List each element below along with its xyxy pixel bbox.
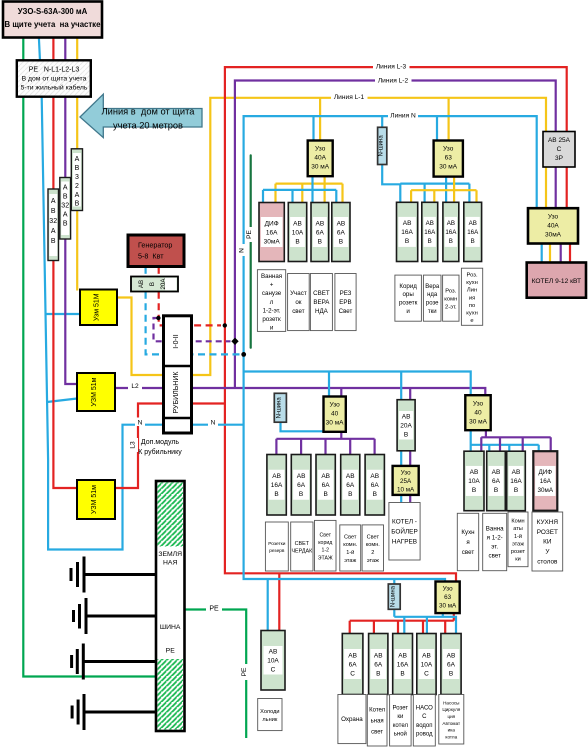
svg-text:6А: 6А: [337, 229, 346, 236]
svg-text:свет: свет: [371, 730, 383, 736]
svg-text:комн.: комн.: [366, 542, 381, 548]
svg-text:5-8 Квт: 5-8 Квт: [138, 252, 164, 261]
svg-text:В: В: [471, 238, 475, 245]
svg-text:6А: 6А: [316, 229, 325, 236]
svg-text:Узо: Узо: [315, 146, 326, 153]
breaker AB 6A V group3 d: [365, 455, 384, 516]
svg-text:УЗМ 51м: УЗМ 51м: [91, 485, 98, 514]
svg-text:АВ: АВ: [374, 652, 383, 659]
load label kitchen light: [457, 513, 478, 570]
svg-text:16А: 16А: [266, 229, 278, 236]
svg-text:16А: 16А: [424, 229, 436, 236]
svg-text:16А: 16А: [271, 482, 283, 489]
earth bus bar with hatch: [156, 481, 185, 731]
svg-text:водоп: водоп: [416, 723, 432, 729]
svg-text:1-й: 1-й: [514, 533, 522, 540]
breaker AB 6A V group3 a: [291, 455, 311, 516]
svg-text:нда: нда: [427, 292, 438, 298]
wire N from N-bus2 to UZO40-mid: [281, 422, 324, 431]
breaker AB-V-20A generator: [131, 277, 178, 292]
svg-text:20А: 20А: [160, 278, 167, 290]
svg-text:Линия L-3: Линия L-3: [376, 64, 407, 71]
svg-text:и: и: [270, 325, 274, 332]
svg-text:этаж: этаж: [512, 541, 524, 547]
svg-text:В: В: [449, 670, 453, 677]
svg-text:котла: котла: [445, 735, 457, 740]
svg-text:В: В: [323, 491, 327, 498]
svg-text:ДИФ: ДИФ: [539, 469, 553, 476]
wire N UZO40-3 to boiler: [541, 244, 543, 263]
svg-text:В щите учета на участке: В щите учета на участке: [5, 20, 102, 29]
svg-text:корид: корид: [318, 540, 332, 546]
svg-text:3: 3: [75, 174, 79, 181]
svg-text:АВ: АВ: [447, 220, 455, 227]
breaker AB 16A V group2 d: [464, 202, 482, 261]
net label N rotated on N riser: [239, 244, 248, 256]
svg-text:Свет: Свет: [367, 534, 380, 540]
svg-text:А: А: [75, 156, 80, 163]
wire N drop to UZO40-mid riser branch: [328, 372, 330, 397]
breaker AB 16A V group4: [507, 451, 526, 511]
wire L2 UZO40-3 to boiler: [560, 244, 562, 263]
svg-text:30мА: 30мА: [264, 238, 281, 245]
RCD UZO 63 30mA top group 2: [434, 141, 463, 177]
svg-text:я 1-2-: я 1-2-: [487, 535, 503, 542]
net label L3 rotated: [129, 438, 138, 452]
wire N stub to N-bus1: [381, 116, 383, 127]
svg-text:ьная: ьная: [371, 719, 384, 725]
svg-text:Узо: Узо: [473, 401, 484, 408]
svg-text:В: В: [51, 208, 56, 215]
RCBO DIF 16A 30mA group4: [533, 451, 557, 511]
svg-text:тки: тки: [428, 309, 437, 315]
svg-text:учета 20 метров: учета 20 метров: [113, 121, 183, 131]
svg-text:1-й: 1-й: [346, 549, 354, 556]
svg-text:санузе: санузе: [262, 290, 282, 297]
svg-text:этаж: этаж: [367, 558, 379, 564]
breaker AB 16A V group2 b: [422, 202, 438, 261]
svg-text:6А: 6А: [297, 482, 306, 489]
net label PE on earth link: [206, 603, 222, 613]
svg-text:6А: 6А: [371, 482, 380, 489]
dashed wire L generator branch to L2 riser node: [154, 318, 231, 341]
wire L2 drop to AB20A: [409, 388, 411, 400]
load label veranda sockets: [423, 275, 441, 321]
svg-text:К рубильнику: К рубильнику: [138, 448, 182, 456]
load label kitchen sockets: [532, 512, 563, 571]
svg-text:Кухн: Кухн: [461, 529, 474, 536]
svg-text:Генератор: Генератор: [138, 241, 172, 250]
net label PE rotated on green middle wire: [246, 227, 256, 242]
wire L2 AB25 to UZO40-3: [555, 167, 557, 208]
svg-text:свет: свет: [462, 549, 475, 556]
load label attic light: [291, 522, 313, 571]
svg-text:А: А: [51, 228, 56, 235]
svg-text:В: В: [63, 194, 68, 201]
wire L1 drop to UZO63 top group: [448, 98, 450, 141]
svg-text:Узо: Узо: [443, 146, 454, 153]
svg-text:16А: 16А: [540, 478, 552, 485]
breaker AB 16A V group3: [267, 455, 286, 516]
svg-text:ДИФ: ДИФ: [265, 220, 279, 227]
RCD UZO 40A 30mA right column: [528, 208, 578, 243]
svg-text:АВ: АВ: [272, 473, 281, 480]
svg-text:л: л: [270, 299, 274, 306]
svg-text:В дом от щита учета: В дом от щита учета: [22, 76, 87, 83]
svg-text:СВЕТ: СВЕТ: [313, 290, 330, 297]
wire L3 UZO40-3 to boiler: [569, 244, 571, 263]
wire L2 from UZM2 through switch to middle purple bus ending at UZO40-2: [114, 388, 485, 395]
svg-text:В: В: [428, 238, 432, 245]
svg-text:я: я: [466, 539, 469, 546]
svg-text:5-ти жильный кабель: 5-ти жильный кабель: [21, 84, 88, 92]
load label boiler heater: [389, 503, 420, 561]
net label Linia N: [388, 110, 418, 120]
RCBO DIF 16A 30mA group1: [259, 203, 284, 262]
generator 5-8 kW: [128, 235, 184, 267]
wire N from switch right to riser: [191, 424, 244, 426]
svg-text:N: N: [138, 420, 143, 427]
svg-text:В: В: [405, 238, 409, 245]
svg-text:6А: 6А: [447, 661, 456, 668]
wire L3 AB25 to UZO40-3: [566, 167, 568, 208]
label add-module for switch: [138, 439, 182, 456]
ground symbol 3: [72, 644, 166, 680]
wire L3 red drop to fridge breaker: [278, 573, 280, 630]
svg-text:16А: 16А: [467, 229, 479, 236]
svg-text:16А: 16А: [445, 229, 457, 236]
svg-text:Свет: Свет: [319, 533, 331, 539]
wire L3 red vertical line L-3 with left drop to bottom bus and right drop: [225, 67, 567, 581]
svg-text:30 мА: 30 мА: [439, 603, 457, 610]
svg-text:В: В: [75, 201, 80, 208]
svg-text:Холоди: Холоди: [260, 709, 279, 715]
breaker AB32A on L2 feeder: [60, 178, 71, 240]
svg-text:30 мА: 30 мА: [469, 419, 488, 426]
svg-text:РЕ: РЕ: [241, 667, 248, 676]
svg-text:АВ: АВ: [337, 220, 346, 227]
load label kitchen line sockets: [461, 268, 482, 325]
svg-text:Насосы: Насосы: [443, 701, 459, 706]
svg-text:котел: котел: [393, 723, 409, 729]
svg-text:А: А: [63, 185, 68, 192]
svg-text:40А: 40А: [314, 155, 326, 162]
svg-text:30мА: 30мА: [545, 232, 562, 239]
load label corridor sockets: [395, 275, 422, 321]
svg-text:В: В: [51, 238, 56, 245]
svg-text:2: 2: [371, 550, 374, 556]
net label PE rotated on bottom green wire: [241, 664, 251, 680]
wire N diagonal into UZM2: [47, 399, 77, 403]
svg-text:В: В: [274, 491, 278, 498]
svg-text:этаж: этаж: [344, 558, 356, 564]
wire L2 AB20A to UZO25: [409, 451, 411, 466]
svg-text:столов: столов: [537, 558, 558, 565]
svg-text:С: С: [271, 667, 276, 674]
svg-text:Линия в дом от щита: Линия в дом от щита: [102, 107, 196, 117]
load label water pump: [413, 695, 435, 747]
wire L3 from UZM3 right to switch: [114, 404, 164, 489]
svg-text:10 мА: 10 мА: [397, 487, 415, 494]
net label Linia L-1: [331, 92, 368, 102]
svg-text:и: и: [406, 308, 410, 315]
svg-text:10А: 10А: [468, 478, 480, 485]
svg-text:КОТЕЛ -: КОТЕЛ -: [392, 519, 417, 526]
svg-text:Узм 51М: Узм 51М: [94, 293, 101, 321]
svg-text:1-2: 1-2: [322, 548, 330, 554]
svg-text:Котел: Котел: [369, 708, 386, 714]
wire N drop to UZO63 top group: [436, 116, 438, 140]
svg-text:РЕЗ: РЕЗ: [340, 290, 352, 297]
svg-text:63: 63: [445, 155, 453, 162]
svg-text:по: по: [469, 303, 475, 309]
svg-text:УЗО-S-63А-300 мА: УЗО-S-63А-300 мА: [18, 7, 88, 16]
wire N UZO25 stub to boiler label: [400, 495, 402, 503]
svg-text:Комн: Комн: [511, 519, 524, 525]
svg-text:НДА: НДА: [315, 308, 329, 315]
svg-text:В: В: [348, 491, 352, 498]
svg-text:25А: 25А: [400, 478, 412, 485]
breaker AB 6A V group4: [487, 451, 506, 511]
svg-text:НАГРЕВ: НАГРЕВ: [392, 539, 417, 546]
wire N line N riser down to bottom cyan bus and UZO63-2: [244, 116, 537, 581]
svg-text:40А: 40А: [547, 223, 559, 230]
load label fridge: [258, 699, 282, 731]
svg-text:АВ: АВ: [403, 220, 412, 227]
svg-text:ция: ция: [447, 714, 455, 719]
svg-text:10А: 10А: [421, 661, 433, 668]
svg-text:16А: 16А: [401, 229, 413, 236]
relay UZM-51m 2: [77, 373, 115, 411]
svg-text:КОТЕЛ 9-12 кВТ: КОТЕЛ 9-12 кВТ: [532, 278, 581, 285]
net label N right of switch: [208, 418, 218, 427]
svg-text:В: В: [376, 670, 380, 677]
wire L3 from switch right to red riser: [191, 402, 225, 404]
svg-text:Лин: Лин: [467, 288, 477, 294]
breaker AB 10A V group4: [464, 451, 484, 511]
svg-text:С: С: [422, 714, 427, 720]
svg-text:30 мА: 30 мА: [311, 164, 330, 171]
svg-text:С: С: [350, 670, 355, 677]
svg-text:АВ: АВ: [138, 280, 145, 288]
svg-text:ЗЕМЛЯ: ЗЕМЛЯ: [158, 551, 182, 558]
wire N middle cyan bus from riser to UZO40-2 with drops: [244, 372, 471, 396]
breaker AB 6A C bottom: [342, 634, 363, 695]
node diamond dashed purple on L2 riser: [231, 338, 238, 345]
breaker AB 6A V group3 c: [341, 455, 360, 516]
svg-text:Свет: Свет: [344, 534, 357, 540]
svg-text:Узо: Узо: [443, 586, 453, 593]
wire L1 UZO40-3 to boiler: [549, 244, 551, 263]
load label bathroom sockets: [257, 270, 285, 332]
load label plot light: [288, 274, 310, 331]
svg-text:В: В: [514, 487, 518, 494]
wire L1 AB25 to UZO40-3: [545, 167, 547, 208]
svg-text:Узо: Узо: [548, 214, 559, 221]
svg-text:10А: 10А: [292, 229, 304, 236]
wire N from N-bus1 to group2 cyan bus: [382, 165, 401, 185]
breaker AB 6A V bottom a: [369, 634, 388, 695]
svg-text:+: +: [270, 282, 274, 289]
wire L3 red fan of bottom group: [350, 613, 454, 633]
dashed wire L generator to AB20A-gen: [158, 267, 160, 276]
svg-text:АВ: АВ: [269, 649, 278, 656]
svg-text:А: А: [75, 192, 80, 199]
svg-text:В: В: [472, 487, 476, 494]
svg-text:е: е: [470, 318, 473, 324]
svg-text:Роз.: Роз.: [445, 288, 456, 294]
svg-text:аты: аты: [513, 526, 523, 532]
svg-text:АВ: АВ: [469, 220, 477, 227]
relay UZM-51M 1: [80, 290, 117, 326]
svg-text:резерв: резерв: [269, 549, 285, 554]
svg-text:СВЕТ: СВЕТ: [295, 541, 310, 547]
svg-text:Линия L-2: Линия L-2: [378, 78, 409, 85]
svg-text:3Р: 3Р: [555, 155, 563, 162]
arrow line to house 20 meters: [80, 94, 202, 137]
breaker AB 6A V group3 b: [316, 455, 335, 516]
svg-text:N-шина: N-шина: [378, 135, 384, 157]
svg-text:2: 2: [75, 183, 79, 190]
svg-text:БОЙЛЕР: БОЙЛЕР: [391, 527, 417, 536]
wire L1 yellow feeder from cable box into UZM1: [76, 38, 78, 291]
svg-text:20А: 20А: [400, 423, 412, 430]
load label rooms 1st floor sockets: [508, 512, 528, 567]
svg-text:Ванна: Ванна: [486, 526, 504, 533]
breaker AB32A on L1 feeder: [71, 149, 82, 211]
svg-text:ок: ок: [295, 299, 301, 306]
breaker AB 6A V group1 b: [332, 203, 350, 262]
svg-text:2-эт.: 2-эт.: [445, 304, 457, 310]
wire N AB20A to UZO25: [400, 451, 402, 466]
svg-text:розет: розет: [511, 549, 526, 555]
wire PE green main from meter box down to earth bus: [23, 38, 157, 677]
svg-text:I-0-II: I-0-II: [173, 334, 180, 348]
svg-text:АВ: АВ: [422, 652, 431, 659]
svg-text:ьной: ьной: [394, 730, 407, 737]
svg-text:40: 40: [331, 411, 339, 418]
svg-text:УЗМ 51м: УЗМ 51м: [91, 377, 98, 406]
wire N cyan fan of top group 2: [400, 177, 469, 203]
svg-text:Линия N: Линия N: [390, 113, 416, 120]
svg-text:РЕ: РЕ: [166, 648, 176, 655]
load label boiler room light: [367, 695, 387, 747]
svg-text:Розет: Розет: [393, 706, 409, 712]
svg-text:С: С: [424, 670, 429, 677]
dashed wire N generator to N riser node: [146, 292, 240, 355]
load label pumps automation: [439, 695, 464, 745]
svg-text:ика: ика: [448, 728, 456, 733]
svg-text:Роз.: Роз.: [467, 273, 478, 279]
svg-text:РУБИЛЬНИК: РУБИЛЬНИК: [173, 371, 180, 414]
RCD UZO 25A 10mA: [393, 466, 419, 495]
RCD main UZO-S-63A meter box: [3, 2, 102, 38]
net label L2 at switch: [128, 381, 142, 390]
svg-text:Ванная: Ванная: [261, 273, 282, 280]
svg-text:Линия L-1: Линия L-1: [334, 94, 365, 101]
RCD UZO 63 30mA bottom group: [436, 582, 460, 614]
wire L1 yellow from UZM1 up to line L-1 bus and right end drop to AB25: [116, 98, 546, 375]
breaker AB 25A C 3P: [543, 132, 575, 168]
load label reserve light: [335, 274, 356, 331]
svg-text:В: В: [299, 491, 303, 498]
wire N drop to UZO1: [312, 116, 314, 140]
net label Linia L-3: [373, 61, 410, 71]
wire L2 drop to UZO40-mid: [340, 388, 342, 397]
wire PE dark green middle vertical: [250, 155, 252, 347]
dashed wire L generator to L3 riser node: [159, 292, 221, 326]
svg-text:L3: L3: [130, 441, 137, 449]
load label veranda light: [310, 274, 332, 331]
svg-text:В: В: [75, 165, 80, 172]
load label rooms light 1st floor: [340, 525, 361, 571]
svg-text:Вера: Вера: [425, 284, 440, 290]
svg-text:6А: 6А: [492, 478, 501, 485]
svg-text:АВ: АВ: [293, 220, 302, 227]
boiler KOTEL 9-12 kW: [527, 263, 586, 298]
svg-text:Корид: Корид: [399, 283, 417, 290]
svg-text:розетк: розетк: [262, 316, 281, 323]
svg-text:30 мА: 30 мА: [439, 164, 458, 171]
svg-text:L2: L2: [131, 383, 139, 390]
svg-text:ЧЕРДАК: ЧЕРДАК: [291, 549, 313, 555]
svg-text:АВ: АВ: [370, 473, 379, 480]
wire L2 purple fan of middle-left group: [276, 432, 374, 455]
N-bus box 2: [274, 393, 286, 422]
breaker AB32A on L3 feeder: [48, 189, 59, 261]
svg-text:КУХНЯ: КУХНЯ: [537, 519, 559, 526]
svg-text:ВЕРА: ВЕРА: [313, 299, 330, 306]
svg-text:АВ: АВ: [297, 473, 306, 480]
load label bathroom light: [483, 513, 507, 570]
svg-text:Свет: Свет: [339, 308, 353, 315]
svg-text:АВ: АВ: [512, 469, 521, 476]
svg-text:АВ: АВ: [398, 652, 407, 659]
wire N drop to AB20A: [400, 372, 402, 400]
load label rooms 2nd floor sockets: [443, 275, 459, 321]
ground symbol 4: [72, 694, 166, 730]
wire N drop to fridge breaker: [267, 579, 269, 631]
wire L1 drop to UZO1: [319, 98, 321, 141]
svg-text:АВ: АВ: [316, 220, 325, 227]
net label N left of switch: [135, 418, 145, 427]
svg-text:Участ: Участ: [290, 290, 307, 297]
svg-text:свет: свет: [292, 308, 305, 315]
wire PE green from earth bus right to bottom: [185, 610, 247, 739]
svg-text:комн.: комн.: [343, 542, 358, 548]
switch I-0-II rubilnik: [164, 316, 192, 433]
svg-text:НАСО: НАСО: [416, 706, 433, 712]
wire L2 purple feeder from cable box into UZM2: [65, 38, 77, 384]
svg-text:6А: 6А: [349, 661, 358, 668]
wire L2 purple fan of middle-right group: [481, 430, 550, 451]
svg-text:РЕ: РЕ: [209, 606, 219, 613]
svg-text:розетк: розетк: [399, 300, 418, 307]
wire L2 UZO25 stub to boiler label: [409, 495, 411, 503]
wire N cyan fan of top group 1: [263, 176, 336, 202]
svg-text:С: С: [557, 146, 562, 153]
svg-text:ия: ия: [469, 295, 475, 301]
breaker AB 16A V group2 c: [443, 202, 459, 261]
svg-text:16А: 16А: [510, 478, 522, 485]
svg-text:АВ: АВ: [321, 473, 330, 480]
ground symbol 2: [74, 598, 167, 634]
svg-text:розе: розе: [426, 301, 439, 307]
breaker AB 6A V group1 a: [311, 203, 329, 262]
net label Linia L-2: [375, 75, 412, 85]
svg-text:Узо: Узо: [329, 402, 340, 409]
wire N cyan feeder slanted from cable box to UZM relays and switch: [39, 38, 164, 550]
